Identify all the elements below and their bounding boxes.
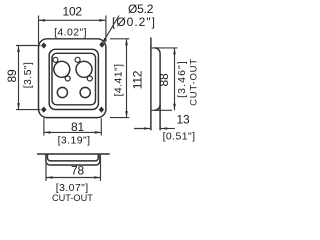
XLR left screw hole SE: [65, 76, 70, 81]
mounting hole top-right (diamond): [99, 42, 104, 48]
dim 89: extension lines: [16, 45, 41, 47]
svg-text:112: 112: [131, 70, 145, 89]
svg-text:[3.5"]: [3.5"]: [22, 62, 34, 89]
svg-text:89: 89: [5, 69, 19, 82]
side view: dish top wall + extension for 88: [151, 47, 178, 49]
recessed dish outer edge: [49, 49, 98, 109]
leader line to top-right hole: [103, 16, 119, 42]
dim 112: dimension line: [126, 39, 128, 118]
small hole bottom-left: [57, 87, 67, 97]
dim 102: dimension line: [39, 19, 106, 21]
dim 13: right arrow: [161, 128, 175, 130]
svg-text:CUT-OUT: CUT-OUT: [189, 58, 200, 106]
bottom view: tray inner wall: [48, 154, 99, 161]
svg-text:88: 88: [157, 73, 171, 86]
XLR hole right: [76, 61, 92, 77]
XLR right screw hole NW: [75, 57, 80, 62]
svg-text:78: 78: [71, 164, 84, 178]
dim 88: dimension line: [174, 48, 176, 110]
recessed dish inner edge: [52, 53, 96, 105]
svg-text:81: 81: [71, 120, 84, 134]
mounting hole bottom-left (diamond): [41, 107, 46, 113]
svg-text:[3.19"]: [3.19"]: [58, 135, 91, 147]
XLR right screw hole SE: [87, 76, 92, 81]
side view: flange front face: [150, 37, 152, 130]
front view: outer plate: [39, 39, 106, 118]
svg-text:102: 102: [62, 5, 82, 19]
XLR left screw hole NW: [53, 57, 58, 62]
svg-text:[0.51"]: [0.51"]: [163, 131, 196, 143]
svg-text:CUT-OUT: CUT-OUT: [52, 193, 93, 203]
svg-text:13: 13: [177, 113, 190, 127]
svg-text:[4.02"]: [4.02"]: [54, 27, 87, 39]
svg-text:[3.46"]: [3.46"]: [176, 60, 188, 98]
XLR hole left: [54, 61, 70, 77]
dim 112: extension lines: [110, 38, 129, 40]
side view: dish back face: [159, 53, 161, 130]
dim 78: extension lines: [45, 156, 47, 181]
svg-text:[4.41"]: [4.41"]: [113, 64, 125, 97]
dim 81: dimension line: [44, 131, 101, 133]
mounting hole top-left (diamond): [41, 42, 46, 48]
dim 78: dimension line: [46, 177, 101, 179]
dim 102: extension lines: [38, 16, 40, 45]
small hole bottom-right: [80, 87, 90, 97]
side view: dish bottom wall + extension for 88: [151, 109, 172, 111]
bottom view: panel surface line: [37, 153, 110, 155]
bottom view: tray outer wall: [46, 154, 100, 165]
dim 13: left arrow: [134, 128, 150, 130]
svg-text:Ø5.2: Ø5.2: [128, 2, 154, 16]
dim 89: dimension line: [18, 46, 20, 110]
dim 81: extension lines: [43, 118, 45, 135]
mounting hole bottom-right (diamond): [99, 107, 104, 113]
